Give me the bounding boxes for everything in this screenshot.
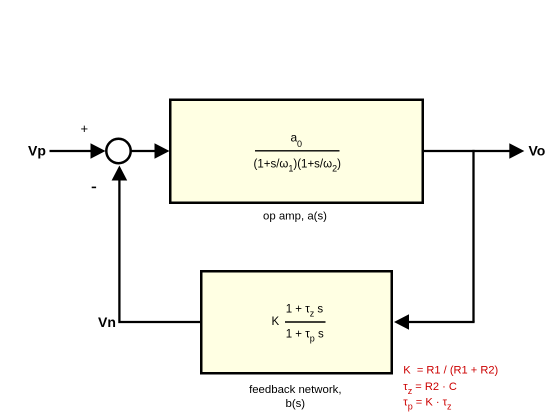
summing junction: [106, 139, 130, 163]
feedback block b(s): [201, 271, 392, 373]
svg-text:+: +: [81, 121, 89, 136]
svg-text:Vp: Vp: [28, 143, 46, 159]
arrowhead into op amp block: [155, 143, 170, 159]
fraction bar feedback: [285, 321, 326, 323]
svg-text:Vo: Vo: [529, 143, 546, 159]
arrowhead into summing junction (+ input): [91, 143, 106, 159]
svg-text:feedback network,: feedback network,: [249, 384, 341, 396]
arrowhead into summing junction (- input): [112, 166, 128, 181]
arrowhead into feedback block: [394, 314, 409, 330]
svg-text:K: K: [272, 316, 280, 328]
svg-text:b(s): b(s): [285, 398, 305, 410]
arrowhead Vo: [509, 143, 524, 159]
svg-text:Vn: Vn: [98, 314, 116, 330]
svg-text:op amp, a(s): op amp, a(s): [263, 211, 327, 223]
wire Vp to summing junction: [50, 150, 93, 152]
fraction bar op amp: [255, 150, 340, 152]
wire feedback block output to left: [121, 321, 201, 323]
wire feedback up to summing junction: [118, 181, 120, 324]
wire branch down from output: [472, 150, 474, 322]
svg-text:K = R1 / (R1 + R2): K = R1 / (R1 + R2): [403, 365, 498, 377]
wire op amp output to Vo: [424, 150, 510, 152]
wire to feedback block input: [409, 321, 475, 323]
wire summing junction to op amp block: [132, 150, 157, 152]
svg-text:0: 0: [297, 139, 302, 149]
minus sign: [92, 187, 96, 189]
op amp block a(s): [170, 100, 423, 203]
